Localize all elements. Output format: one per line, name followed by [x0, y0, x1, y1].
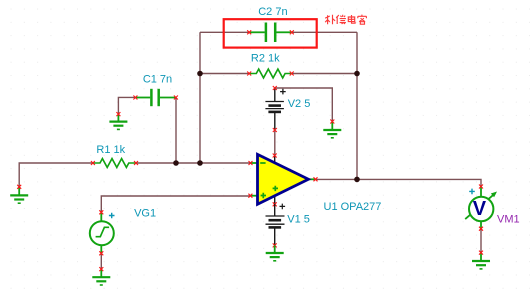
capacitor C1: [135, 89, 176, 106]
highlight box around C2: [224, 19, 317, 47]
battery V2: [265, 88, 285, 130]
junction node R2/right vertical: [354, 71, 360, 77]
battery V1: [266, 204, 286, 246]
svg-text:C1 7n: C1 7n: [143, 74, 172, 86]
ground (under VG1): [92, 269, 110, 285]
junction node left vertical/inverting net: [197, 160, 203, 166]
wire inverting net: left ground corner to R1: [19, 163, 93, 187]
wire output net to VM1: [316, 179, 482, 186]
svg-text:V: V: [473, 198, 487, 220]
wire top C2 net horizontal right: [292, 31, 357, 33]
resistor R1: [93, 159, 136, 168]
wire C1 right pin down to inverting net: [175, 98, 177, 164]
ground (under VM1): [472, 253, 490, 269]
wire right vertical from C2 wire down to output net: [356, 32, 358, 179]
wire VG1 bottom to ground: [100, 253, 102, 269]
svg-text:C2 7n: C2 7n: [258, 6, 287, 18]
junction node C1/inverting net: [173, 160, 179, 166]
voltmeter VM1: [465, 185, 519, 231]
wire left vertical from C2 wire down to R1 net: [199, 32, 201, 163]
junction node R2/left vertical: [197, 71, 203, 77]
wire V2 plus to ground: [275, 88, 333, 122]
wire V2 minus to op-amp V+ pin: [274, 130, 276, 156]
source VG1: [90, 212, 115, 253]
wire VG1 to op-amp plus input: [101, 196, 250, 212]
wire C1 left lead to ground: [118, 97, 135, 114]
ground (left, inverting net): [10, 187, 28, 203]
ground (V2 net): [323, 122, 341, 138]
capacitor C2: [249, 23, 292, 43]
wire inverting net: R1 to op-amp minus input: [136, 162, 251, 164]
annotation 补偿电容 (hand drawn strokes): [325, 15, 366, 25]
svg-text:VM1: VM1: [497, 213, 520, 225]
svg-text:V2 5: V2 5: [288, 98, 311, 110]
wire R2 net left: [200, 73, 249, 75]
wire VM1 bottom to ground: [480, 229, 482, 253]
svg-text:V1 5: V1 5: [287, 214, 310, 226]
svg-text:U1 OPA277: U1 OPA277: [324, 201, 382, 213]
op-amp U1: [248, 154, 381, 213]
svg-text:VG1: VG1: [134, 207, 156, 219]
wire R2 net right: [292, 73, 357, 75]
svg-text:R2 1k: R2 1k: [251, 52, 280, 64]
wire top C2 net horizontal left: [200, 31, 249, 33]
ground (under C1): [109, 114, 127, 129]
junction node output/right vertical: [354, 177, 360, 183]
ground (under V1): [266, 245, 284, 260]
resistor R2: [249, 69, 292, 78]
svg-text:R1 1k: R1 1k: [96, 144, 125, 156]
